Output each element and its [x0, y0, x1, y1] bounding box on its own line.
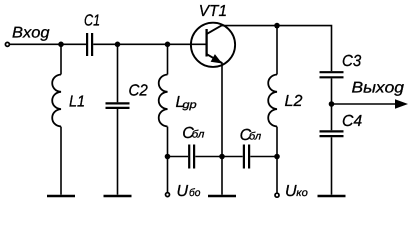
svg-text:gp: gp: [182, 99, 196, 111]
svg-text:бл: бл: [192, 129, 205, 141]
svg-text:бл: бл: [249, 131, 261, 143]
svg-text:C4: C4: [342, 113, 362, 130]
svg-text:L2: L2: [285, 93, 303, 110]
svg-text:Bыxog: Bыxog: [352, 79, 405, 96]
svg-text:C3: C3: [342, 53, 361, 70]
svg-text:U: U: [285, 183, 297, 200]
svg-text:бо: бо: [189, 187, 201, 199]
svg-text:Bxog: Bxog: [12, 24, 50, 41]
svg-text:кo: кo: [296, 187, 308, 199]
svg-text:L1: L1: [69, 94, 85, 111]
svg-text:VT1: VT1: [199, 3, 227, 20]
svg-text:U: U: [177, 183, 189, 200]
svg-text:C2: C2: [129, 82, 148, 99]
svg-text:C1: C1: [84, 13, 100, 30]
